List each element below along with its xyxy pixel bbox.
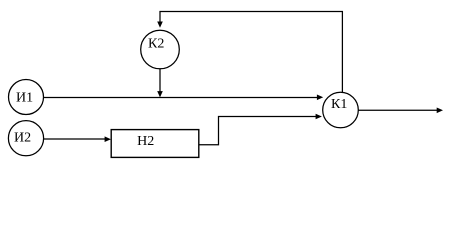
svg-text:Н2: Н2 [137,134,154,149]
svg-text:И2: И2 [14,131,31,146]
svg-text:И1: И1 [16,91,33,106]
svg-text:К1: К1 [331,97,347,112]
svg-text:К2: К2 [148,37,164,52]
